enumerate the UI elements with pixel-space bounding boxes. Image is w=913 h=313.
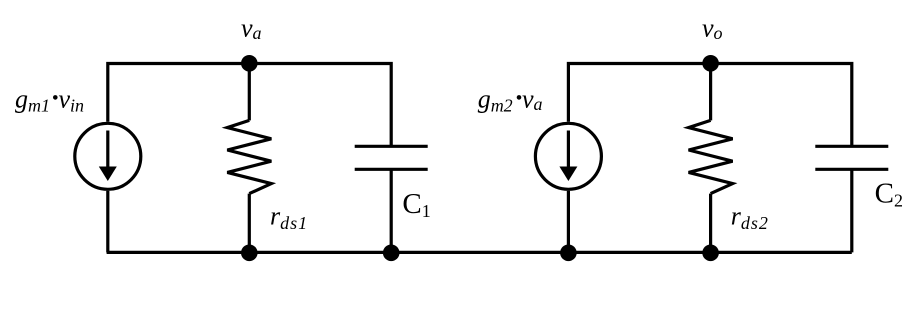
label bullet dot of gm1*vin (53, 95, 58, 100)
wire: stage-1 left vertical top + top rail + C1 upper stem (108, 64, 391, 147)
wire: C1 lower stem (390, 169, 393, 253)
wire: stage-2 left vertical top + top rail + C2 upper stem (568, 64, 851, 147)
node vo junction dot (top) (702, 55, 719, 72)
svg-text:gm2: gm2 (478, 84, 513, 115)
wire: common bottom rail (107, 251, 852, 254)
wire: C2 lower stem (850, 169, 853, 252)
junction dot: bottom of rds1 (241, 245, 258, 262)
svg-text:C1: C1 (402, 188, 430, 221)
svg-text:va: va (241, 14, 262, 44)
junction dot: bottom of current source U2 (560, 245, 577, 262)
resistor rds1 (227, 120, 271, 193)
wire: R1 upper stem (248, 63, 251, 120)
wire: R1 lower stem (248, 194, 251, 253)
current source U1 (gm1*vin) circle (75, 123, 141, 189)
current source U2 arrow (559, 131, 577, 182)
current source U2 (gm2*va) circle (535, 123, 601, 189)
current source U1 arrow (99, 131, 117, 182)
capacitor C1 plates (355, 146, 428, 169)
junction dot: bottom of rds2 (702, 245, 719, 262)
capacitor C2 plates (815, 146, 888, 169)
label bullet dot of gm2*va (517, 95, 522, 100)
node va junction dot (top) (241, 55, 258, 72)
svg-text:C2: C2 (875, 177, 903, 210)
wire: stage-2 current-source vertical bottom (567, 191, 570, 253)
svg-text:vo: vo (702, 14, 723, 44)
svg-text:rds1: rds1 (270, 202, 308, 233)
svg-text:va: va (522, 84, 543, 114)
resistor rds2 (689, 120, 733, 193)
junction dot: bottom of C1 (383, 245, 400, 262)
svg-text:vin: vin (59, 84, 85, 115)
svg-text:rds2: rds2 (731, 202, 769, 233)
wire: R2 upper stem (709, 63, 712, 120)
wire: stage-1 left vertical bottom (below current source) (106, 191, 109, 253)
svg-text:gm1: gm1 (15, 84, 50, 115)
wire: R2 lower stem (709, 194, 712, 253)
